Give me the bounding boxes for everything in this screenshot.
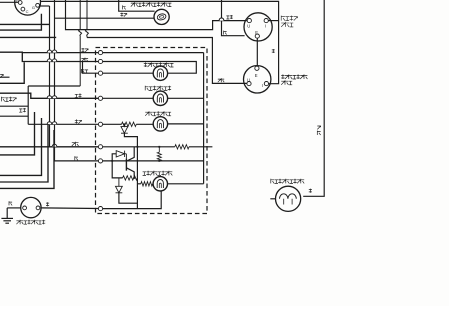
- terminal row8 on dashed edge: [98, 207, 102, 211]
- wire right rail to flasher lamp: [303, 0, 324, 196]
- label battery charge: [144, 62, 147, 67]
- label temperature gauge line1: [281, 74, 284, 79]
- label wire black-green at temp U: [218, 79, 221, 82]
- temperature gauge terminal E: [255, 66, 259, 70]
- junction row7 base branch: [111, 160, 113, 162]
- wire check switch to row8 terminal: [41, 207, 98, 210]
- wire row4 engine oil: [103, 97, 154, 99]
- wire row8 into box: [103, 191, 162, 209]
- wire fuel gauge I link: [268, 20, 278, 22]
- label wire black at fuel E: [224, 31, 227, 35]
- wire battery fluid lamp to inner rail: [168, 183, 204, 185]
- wire row2 battery charge top: [103, 62, 197, 74]
- wire left edge y83.3 corner: [0, 62, 24, 83]
- diode D1 from radiator row: [123, 124, 125, 126]
- temperature gauge G2 body: [244, 66, 271, 93]
- wire base branch down: [112, 161, 122, 178]
- label row5 colour: [75, 119, 78, 123]
- wire resistor R2 to right rail: [189, 146, 212, 148]
- terminal row4 on dashed edge: [98, 96, 102, 100]
- hop over bus at fuel feed: [219, 18, 224, 21]
- fuel gauge terminal U: [247, 19, 251, 23]
- wire row2 branch step down to row3: [83, 62, 99, 74]
- wire radiator feed to terminal: [28, 123, 98, 125]
- transistor Q1 emitter: [126, 168, 134, 178]
- hop engine-oil feed over bus: [47, 96, 52, 99]
- wire ground to check switch: [7, 207, 21, 209]
- junction row6 spine: [137, 146, 139, 148]
- engine oil lamp L4: [153, 91, 167, 105]
- check switch SW2 body: [21, 197, 41, 217]
- wire wiggle vertical x87 to gauge loop: [85, 0, 88, 38]
- wire left edge y30.1 to key switch bottom: [0, 14, 41, 30]
- label row7 colour: [75, 156, 78, 160]
- temperature gauge terminal U: [247, 82, 251, 86]
- wire outer loop top to temperature gauge U: [87, 38, 247, 84]
- label battery fluid level: [143, 172, 146, 176]
- wire flasher pilot upper feed: [119, 0, 155, 11]
- bus wire x54.5 from top edge to warning row 7: [54, 0, 56, 161]
- wire corner L2: [0, 118, 42, 175]
- wire emitter node to spine: [136, 177, 138, 179]
- label row1 colour: [81, 48, 84, 52]
- wire flasher lamp left stub: [270, 198, 275, 200]
- svg-text:U: U: [247, 77, 250, 82]
- spine vertical wire: [136, 147, 138, 209]
- flasher lamp L2 body: [276, 186, 301, 211]
- wire key switch G to bus: [40, 5, 49, 7]
- wire left edge y147 to warning row6: [0, 146, 98, 148]
- label temperature gauge line2: [281, 81, 284, 85]
- wire drop x28.2 to radiator feed: [27, 86, 29, 124]
- wire left edge y37.4 to bus: [0, 36, 56, 38]
- svg-text:I: I: [265, 24, 266, 29]
- wire left edge y116 stub: [0, 115, 28, 117]
- wire left edge y106 stub: [0, 105, 28, 107]
- temperature gauge terminal I: [264, 82, 268, 86]
- wire resistor to radiator lamp: [136, 123, 153, 125]
- label fuel gauge line2: [281, 23, 285, 27]
- hop row1 over bus x49.5: [47, 50, 52, 53]
- resistor R5 battery fluid: [141, 182, 153, 186]
- fuel gauge G1 body: [244, 13, 272, 41]
- svg-text:I: I: [262, 83, 263, 88]
- wire spine to resistor R5: [137, 183, 140, 185]
- label row3 colour: [81, 69, 84, 73]
- svg-text:U: U: [247, 24, 250, 29]
- label wire green-black (pilot lower): [120, 13, 123, 17]
- wire bus x54.5 to row7: [55, 160, 99, 162]
- wire fuel E to temperature E: [256, 38, 258, 66]
- junction R3 bottom: [158, 160, 160, 162]
- terminal row7 on dashed edge: [98, 159, 102, 163]
- label wire black right rail: [272, 49, 275, 53]
- label row2 colour: [81, 59, 84, 62]
- wire row1 to inner right rail: [103, 52, 204, 54]
- label wire black at check switch: [9, 201, 12, 205]
- flasher pilot lamp filament: [157, 13, 167, 21]
- bus wire x49.5 down to warning row 6: [49, 6, 51, 147]
- resistor R4 emitter: [123, 176, 138, 180]
- wire branch to row1 terminal: [22, 52, 98, 54]
- key switch SW1 body: [15, 0, 41, 15]
- transistor Q1 collector feed: [133, 147, 135, 154]
- wire engine oil lamp to right rail: [167, 97, 203, 99]
- wire sender line y86: [28, 85, 80, 87]
- check switch terminal b: [36, 206, 40, 210]
- hop row6 feed over bus x54.5: [52, 144, 57, 147]
- terminal row6 on dashed edge: [98, 145, 102, 149]
- diode D2 to transistor base: [116, 151, 124, 157]
- label flasher pilot (left): [131, 3, 134, 7]
- svg-text:G: G: [32, 5, 35, 10]
- wire to diode D2: [112, 154, 116, 161]
- hop fuel E wire: [219, 18, 224, 21]
- resistor R3 vertical: [157, 152, 161, 161]
- label wire black (pilot upper): [123, 5, 126, 9]
- wire row7 across box: [103, 160, 204, 162]
- wire left edge y24.4 to bus: [0, 23, 50, 25]
- wire flasher pilot lower feed: [55, 17, 155, 19]
- svg-text:E: E: [255, 30, 258, 35]
- wire corner L1: [0, 112, 35, 155]
- junction row6 divider: [158, 146, 160, 148]
- hop row1 over bus x54.5: [52, 50, 57, 53]
- label radiator level: [145, 112, 148, 116]
- flasher pilot lamp L1 body: [154, 9, 169, 24]
- label wire green at flasher lamp: [309, 189, 312, 193]
- check switch terminal a: [23, 206, 27, 210]
- bus wire x65.5 feeder to fuel gauge U: [66, 0, 247, 30]
- label white-green left edge: [0, 75, 3, 78]
- radiator level lamp L5: [153, 117, 167, 131]
- hop row2 over buses: [47, 59, 52, 62]
- battery charge lamp L3: [153, 66, 167, 80]
- transistor Q1 collector: [126, 154, 134, 161]
- diode D3 drop: [118, 178, 120, 186]
- terminal row2 on dashed edge: [98, 59, 102, 63]
- battery fluid lamp L6: [153, 177, 167, 191]
- wire row6 with resistor: [103, 146, 175, 148]
- ground symbol: [6, 208, 8, 219]
- wire row5 radiator: [103, 123, 122, 125]
- label wire green-white at fuel U: [226, 16, 229, 19]
- label green-black left: [19, 109, 22, 112]
- svg-text:E: E: [255, 73, 258, 78]
- wire row3 to battery charge lamp: [103, 72, 154, 74]
- label check switch: [16, 221, 19, 224]
- wire top rail to temperature gauge I: [40, 1, 278, 83]
- transistor Q1 base bar: [125, 159, 127, 171]
- junction emitter node: [133, 177, 135, 179]
- resistor R1 radiator row: [122, 122, 137, 126]
- wire corner L3: [0, 124, 48, 182]
- svg-text:C: C: [26, 9, 29, 14]
- key switch terminal C: [21, 7, 25, 11]
- terminal row1 on dashed edge: [98, 51, 102, 55]
- resistor R2 row6: [175, 145, 189, 149]
- wire corner L4: [0, 130, 54, 188]
- label wire green at check switch: [46, 202, 49, 206]
- label fuel gauge line1: [281, 16, 285, 21]
- label engine oil: [145, 86, 148, 91]
- hop radiator feed over bus: [47, 122, 52, 125]
- junction radiator diode: [124, 123, 126, 125]
- label flasher lamp left: [271, 179, 274, 184]
- wire key switch B to left edge: [0, 1, 18, 3]
- fuel gauge terminal I: [264, 19, 268, 23]
- fuel gauge terminal E: [255, 34, 259, 38]
- warning lamp unit dashed enclosure: [96, 48, 208, 214]
- label sender wire: [1, 97, 4, 102]
- flasher lamp filament: [280, 194, 297, 199]
- wire left edge engine-oil feed: [0, 93, 98, 98]
- label row6 colour: [72, 143, 75, 146]
- terminal row5 on dashed edge: [98, 122, 102, 126]
- wire left edge y52 step to rows 1-2: [0, 52, 98, 61]
- wire radiator lamp to right rail: [167, 123, 203, 125]
- wire wiggle vertical x80 to sender line: [79, 0, 82, 86]
- terminal row3 on dashed edge: [98, 71, 102, 75]
- key switch terminal B: [18, 1, 22, 5]
- inner right rail down: [203, 53, 205, 184]
- label row4 colour: [75, 94, 78, 97]
- key switch terminal G: [36, 3, 40, 7]
- wire bus to fuel gauge E: [222, 0, 245, 36]
- wire stub left edge y77: [0, 76, 10, 78]
- label wire green-black vertical: [317, 126, 320, 129]
